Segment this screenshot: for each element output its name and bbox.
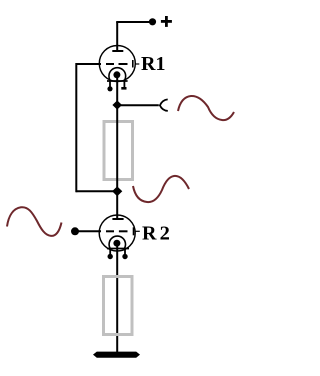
node + supply terminal dot [149, 18, 156, 25]
svg-text:R1: R1 [141, 53, 165, 75]
wire grid lead of R2 [78, 230, 101, 232]
tube R2 grid dashes [106, 230, 128, 232]
resistor lower (cathode resistor of R2) [104, 277, 133, 335]
tube R2 heater dot [113, 240, 120, 247]
wire feedback bottom horizontal [76, 190, 117, 192]
signal waveform middle (red sine) [133, 176, 189, 202]
wire junction down to R2 plate [116, 191, 118, 219]
output terminal C [160, 99, 168, 111]
wire grid lead of R1 from feedback wire [76, 63, 101, 65]
resistor upper (between cathode of R1 and plate of R2) [104, 122, 133, 180]
signal waveform output (red sine) [178, 96, 234, 120]
tube R1 heater pin right (pin 1 foot) [121, 81, 126, 88]
tube R2 heater pin left [108, 249, 113, 260]
wire supply rail horizontal [116, 21, 150, 23]
node input terminal dot [71, 227, 79, 235]
node junction plate R2 / divider [112, 186, 122, 196]
wire R2 cathode lead down to ground [116, 243, 118, 352]
wire feedback left vertical [75, 63, 77, 192]
wire through upper resistor [116, 105, 118, 191]
tube R2 heater pin right [122, 249, 127, 260]
tube R1 envelope [99, 46, 135, 82]
svg-text:2: 2 [160, 223, 170, 245]
tube R2 grid end tick [133, 227, 135, 235]
tube R2 envelope [99, 215, 135, 251]
wire plate lead of R1 up to supply rail [116, 22, 118, 51]
tube R1 plate bar [112, 50, 123, 52]
tube R2 plate bar [112, 218, 123, 220]
tube R2 base bar [107, 248, 129, 250]
ground [93, 352, 140, 358]
tube R1 grid right stub [135, 63, 140, 65]
tube R1 heater dot [113, 71, 120, 78]
wire output lead [117, 104, 159, 106]
+ supply symbol [161, 16, 172, 27]
tube R1 grid end tick [132, 60, 134, 68]
node junction cathode R1 / output [112, 100, 122, 109]
tube R1 base bar [107, 80, 128, 82]
tube R1 grid dashes [106, 63, 128, 65]
tube R2 cathode dome [109, 236, 125, 248]
tube R1 cathode dome [109, 68, 126, 81]
tube R1 heater pin left [107, 81, 112, 91]
svg-text:R: R [142, 222, 157, 244]
signal waveform input (red sine) [7, 207, 62, 236]
wire R1 cathode lead down [116, 76, 118, 106]
tube R2 grid right stub [135, 230, 140, 232]
